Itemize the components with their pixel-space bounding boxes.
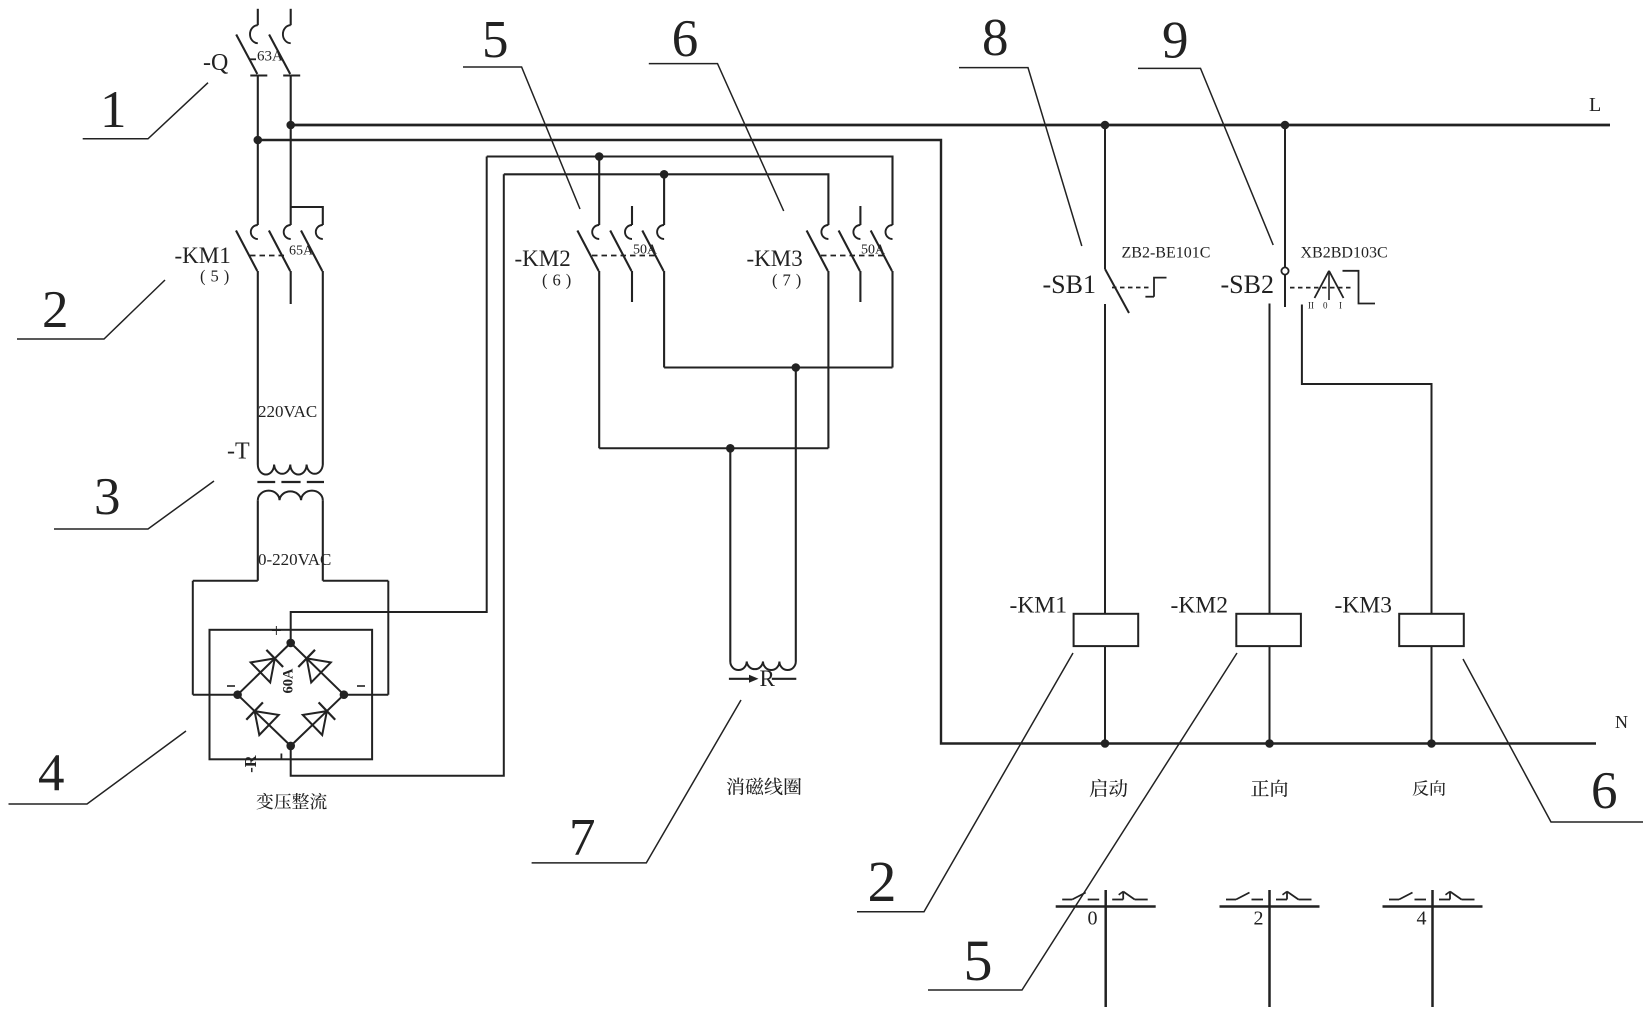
svg-text:6: 6	[672, 10, 699, 68]
svg-text:4: 4	[1417, 908, 1427, 930]
svg-text:-Q: -Q	[203, 50, 228, 76]
svg-text:50A: 50A	[861, 243, 886, 258]
svg-text:8: 8	[982, 9, 1009, 67]
svg-text:65A: 65A	[289, 244, 314, 259]
svg-text:0-220VAC: 0-220VAC	[258, 550, 331, 569]
svg-text:63A: 63A	[257, 49, 283, 65]
svg-text:-KM3: -KM3	[747, 246, 803, 271]
svg-text:-R: -R	[241, 754, 260, 772]
svg-text:60A: 60A	[281, 668, 297, 694]
svg-text:50A: 50A	[633, 243, 658, 258]
svg-text:5: 5	[964, 928, 993, 993]
svg-text:7: 7	[569, 809, 596, 867]
svg-text:2: 2	[1254, 908, 1264, 930]
svg-text:XB2BD103C: XB2BD103C	[1301, 245, 1388, 262]
svg-text:-KM1: -KM1	[175, 243, 231, 268]
svg-text:-KM2: -KM2	[1171, 593, 1228, 619]
svg-text:-KM1: -KM1	[1010, 593, 1067, 619]
svg-text:4: 4	[38, 744, 65, 802]
svg-text:-KM3: -KM3	[1335, 593, 1392, 619]
svg-text:II: II	[1308, 301, 1314, 311]
svg-text:9: 9	[1162, 11, 1189, 69]
svg-text:6: 6	[1591, 762, 1618, 820]
svg-text:-SB1: -SB1	[1043, 270, 1096, 299]
svg-text:I: I	[1339, 301, 1342, 311]
svg-text:(5): (5)	[200, 267, 234, 286]
svg-text:(6): (6)	[542, 271, 576, 290]
svg-text:(7): (7)	[772, 271, 806, 290]
svg-text:2: 2	[868, 849, 897, 914]
svg-text:L: L	[1589, 94, 1601, 116]
svg-text:ZB2-BE101C: ZB2-BE101C	[1122, 245, 1211, 262]
svg-text:0: 0	[1323, 301, 1328, 311]
svg-text:-T: -T	[227, 439, 250, 465]
svg-text:2: 2	[42, 281, 69, 339]
svg-text:N: N	[1615, 712, 1628, 732]
svg-text:5: 5	[482, 11, 509, 69]
svg-text:+: +	[271, 621, 282, 642]
svg-text:1: 1	[100, 81, 127, 139]
svg-text:0: 0	[1088, 908, 1098, 930]
svg-text:3: 3	[94, 468, 121, 526]
svg-text:220VAC: 220VAC	[258, 402, 317, 421]
svg-text:-SB2: -SB2	[1221, 270, 1274, 299]
svg-text:-KM2: -KM2	[515, 246, 571, 271]
